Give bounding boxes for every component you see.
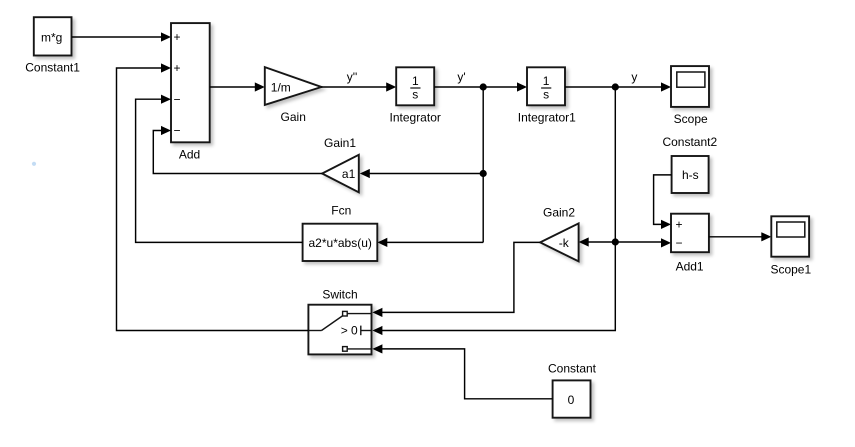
svg-text:Fcn: Fcn [331,204,351,218]
wire Gain output to Integrator [321,86,390,88]
svg-text:Add: Add [179,147,200,161]
svg-text:Integrator1: Integrator1 [518,111,576,125]
svg-text:1: 1 [543,74,550,88]
junction node at x483 Gain1 row [480,170,487,177]
svg-text:Scope: Scope [674,112,708,126]
svg-text:a2*u*abs(u): a2*u*abs(u) [309,236,372,250]
arrowhead Gain1 input [360,169,370,178]
arrowhead Gain input [255,82,265,91]
wire junction x483 down to Gain1 row [482,87,484,174]
svg-text:Add1: Add1 [676,259,704,273]
gain block Gain (1/m) [265,67,322,105]
svg-text:+: + [173,30,180,44]
wire Integrator1 output to Scope [565,86,665,88]
arrowhead Fcn input [377,238,387,247]
svg-text:1/m: 1/m [271,81,291,95]
wire Fcn output to Add input 3 [136,99,303,242]
wire Integrator output to Integrator1 [434,86,521,88]
scope block Scope1 [771,216,809,256]
arrowhead Scope1 input [761,232,771,241]
wire Add output to Gain [210,86,259,88]
arrowhead Add input 3 [161,95,171,104]
arrowhead Gain2 input [579,237,589,246]
wire Fcn row horizontal to Fcn input [384,241,483,243]
svg-text:y: y [631,70,637,84]
svg-text:y': y' [457,70,465,84]
svg-text:Gain: Gain [281,110,306,124]
wire Constant1 to Add input 1 [72,36,166,38]
gain block Gain2 (-k) left-pointing [540,223,579,261]
wire junction x483 down to Fcn row [482,174,484,243]
svg-text:Gain1: Gain1 [324,136,356,150]
arrowhead Switch input 1 [372,308,382,317]
arrowhead Switch input 3 [372,344,382,353]
wire Gain1 row horizontal to Gain1 input [367,173,483,175]
function block Fcn (a2*u*abs(u)) [303,224,378,261]
arrowhead Add input 4 [161,126,171,135]
wire Constant2 output to Add1 plus input [654,175,672,225]
svg-text:m*g: m*g [41,30,62,44]
svg-text:a1: a1 [342,167,356,181]
scope block Scope [671,66,709,107]
svg-text:Gain2: Gain2 [543,206,575,220]
arrowhead Scope input [661,82,671,91]
svg-text:-k: -k [559,236,570,250]
arrowhead Integrator1 input [517,82,527,91]
wire Add1 output to Scope1 [709,236,765,238]
svg-text:s: s [412,88,418,102]
wire junction x615 down through Gain2 row to Switch middle row [378,87,615,331]
arrowhead Add input 2 [161,63,171,72]
wire Gain2 output to Switch input 1 [378,242,540,312]
svg-text:0: 0 [568,393,575,407]
junction node at x615 main row [612,83,619,90]
stray blue dot [32,162,36,166]
integrator block Integrator1 (1/s) [527,67,565,105]
svg-text:1: 1 [412,74,419,88]
svg-text:Switch: Switch [322,287,357,301]
svg-text:−: − [173,124,180,138]
junction node at x483 main row [480,83,487,90]
sum block Add [171,23,210,142]
svg-text:Constant2: Constant2 [662,135,717,149]
svg-text:h-s: h-s [682,168,699,182]
gain block Gain1 (a1) left-pointing [322,155,359,193]
arrowhead Integrator input [386,82,396,91]
sum block Add1 [671,214,709,253]
svg-text:Constant1: Constant1 [25,61,80,75]
wire Gain1 output to Add input 4 [153,131,322,174]
arrowhead Add1 minus input [661,238,671,247]
wire Switch output to Add input 2 [117,68,309,331]
constant block Constant (0) [553,380,591,417]
wire Constant output to Switch input 3 [378,349,553,399]
svg-text:Scope1: Scope1 [770,262,811,276]
svg-text:Integrator: Integrator [390,111,441,125]
svg-text:Constant: Constant [548,362,597,376]
svg-text:−: − [173,92,180,106]
svg-text:−: − [675,236,682,250]
svg-text:y'': y'' [347,70,358,84]
switch block Switch [308,305,371,355]
constant block Constant2 (h-s) [672,156,709,193]
svg-text:> 0: > 0 [341,324,358,338]
arrowhead Switch input 2 [372,326,382,335]
svg-text:s: s [543,88,549,102]
svg-text:+: + [173,61,180,75]
arrowhead Add1 plus input [661,220,671,229]
svg-text:+: + [675,218,682,232]
wire Gain2 row horizontal between Gain2 and Add1 [584,241,665,243]
integrator block Integrator (1/s) [396,67,434,105]
constant block Constant1 (m*g) [34,17,72,55]
arrowhead Add input 1 [161,32,171,41]
junction node at x615 Gain2 row [612,238,619,245]
